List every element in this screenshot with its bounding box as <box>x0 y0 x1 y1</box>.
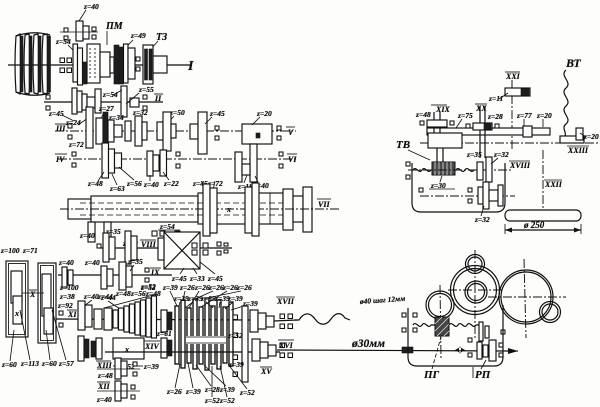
bottom label z=26 a <box>166 364 182 396</box>
svg-text:z=48: z=48 <box>415 110 431 119</box>
svg-text:IX: IX <box>150 268 160 277</box>
bearing squares shaft II <box>46 95 147 110</box>
label z=40 shaft IV <box>143 175 159 189</box>
label z=56 <box>119 167 142 188</box>
shaft XIX vertical <box>420 112 454 133</box>
reversing box shaft XIV <box>113 338 144 359</box>
svg-text:z=35: z=35 <box>466 150 482 159</box>
svg-text:z=26: z=26 <box>222 283 238 292</box>
label z=48 shaft XIII <box>97 371 113 380</box>
small gears below spindle left <box>88 222 111 248</box>
vertical shaft XXII centerline <box>542 150 544 211</box>
bottom label z=52 a <box>204 366 220 405</box>
label z=71 <box>22 246 38 255</box>
svg-text:z=52: z=52 <box>219 396 235 405</box>
label z=92 <box>57 301 73 310</box>
svg-text:z=52: z=52 <box>239 388 255 397</box>
bearing squares shaft I left <box>60 58 72 73</box>
block z=20 on shaft V <box>242 124 272 144</box>
svg-text:VI: VI <box>288 155 297 164</box>
bearing squares shaft VIII right <box>217 242 228 255</box>
label IX <box>150 268 161 277</box>
label z=40 shaft XI <box>83 292 99 306</box>
label z=44 z=48 z=36 z=40 row <box>97 289 161 301</box>
svg-text:z=26: z=26 <box>236 283 252 292</box>
svg-text:X: X <box>29 290 36 299</box>
label XX <box>475 104 487 113</box>
label z=75 <box>456 111 473 128</box>
label XVII <box>276 297 295 306</box>
label XXIII <box>567 146 589 155</box>
svg-text:ПМ: ПМ <box>105 21 124 32</box>
svg-text:XIV: XIV <box>144 342 159 351</box>
svg-text:z=28: z=28 <box>487 112 503 121</box>
svg-text:z=26: z=26 <box>208 283 224 292</box>
svg-text:z=77: z=77 <box>516 111 532 120</box>
label z=40 shaft VI <box>253 176 269 190</box>
label z=45 z=33 z=45 row <box>171 262 223 283</box>
svg-text:III: III <box>55 124 66 133</box>
label VI <box>287 154 297 164</box>
label z=49 <box>124 31 146 49</box>
shaft I centerline <box>8 64 192 66</box>
label XI <box>67 310 77 319</box>
shaft IX centerline <box>58 274 172 276</box>
svg-text:XIX: XIX <box>435 105 450 114</box>
svg-text:x: x <box>14 309 19 318</box>
svg-text:z=48: z=48 <box>145 289 161 298</box>
gears on shaft IX <box>62 262 149 290</box>
svg-text:z=45: z=45 <box>171 274 187 283</box>
svg-text:VIII: VIII <box>141 240 157 249</box>
apron box upper (saddle) <box>428 133 462 163</box>
gear cluster on shaft II <box>72 86 139 117</box>
apron left wheel circle <box>426 285 454 358</box>
apron small right circle <box>540 302 561 323</box>
bearing squares shaft V <box>215 126 281 140</box>
label z=44 shaft XI <box>100 293 120 309</box>
label VIII <box>140 240 157 249</box>
shaft II centerline <box>44 101 163 103</box>
bearing squares shaft III <box>68 124 72 139</box>
label ПГ <box>423 337 441 381</box>
svg-text:z=60: z=60 <box>1 360 17 369</box>
label z=40 shaft XII <box>96 395 112 404</box>
svg-text:XXII: XXII <box>544 180 563 189</box>
svg-text:z=48: z=48 <box>97 371 113 380</box>
label XIII <box>96 361 113 370</box>
label z=27 <box>98 104 114 121</box>
svg-text:z=52: z=52 <box>204 396 220 405</box>
svg-text:z=26: z=26 <box>194 283 210 292</box>
svg-text:z=32: z=32 <box>474 215 490 224</box>
svg-text:z=100: z=100 <box>59 283 79 292</box>
label z=20 shaft V <box>252 109 272 125</box>
label z=77 <box>516 111 532 127</box>
label z=60 bottom a <box>1 330 17 369</box>
label z=52 mid <box>227 331 243 340</box>
svg-text:z=40: z=40 <box>143 180 159 189</box>
svg-text:x: x <box>124 345 129 354</box>
label z=34 <box>108 113 124 129</box>
saddle outline box <box>412 163 505 212</box>
bed rack bar <box>427 126 550 137</box>
gears hanging from block to shaft VI <box>235 144 257 182</box>
svg-text:XV: XV <box>260 367 272 376</box>
label z=55 <box>126 85 154 104</box>
svg-text:z=100: z=100 <box>0 246 20 255</box>
svg-text:z=40: z=40 <box>84 258 100 267</box>
apron outline box <box>408 305 503 366</box>
gears on shaft XI left <box>59 301 102 330</box>
gear cluster on shaft I <box>73 44 140 85</box>
gears left edge of feed stack <box>161 310 172 358</box>
label z=24 <box>65 118 88 127</box>
reversing box with cross on shaft VIII <box>158 232 208 269</box>
svg-text:z=35: z=35 <box>127 257 143 266</box>
label VII <box>317 199 331 209</box>
shaft XI centerline <box>56 319 250 320</box>
sliding key gear cone on shaft XI <box>104 294 157 338</box>
gears on shaft VIII <box>103 231 137 264</box>
cross slide table ø250 <box>505 210 581 234</box>
label X <box>29 290 37 299</box>
svg-text:z=56: z=56 <box>126 179 142 188</box>
label РП <box>473 360 491 381</box>
svg-text:z=57: z=57 <box>58 359 74 368</box>
bevel gear z=11 on shaft XXI <box>505 88 530 96</box>
gear z=50 on shaft III <box>157 112 176 151</box>
label z=54 shaft I <box>55 37 76 53</box>
label z=54 shaft II <box>102 90 122 99</box>
svg-text:ø40 шаг 12мм: ø40 шаг 12мм <box>359 294 406 306</box>
svg-text:z=40: z=40 <box>96 395 112 404</box>
apron vertical centerline through wheel <box>474 250 476 340</box>
half nut on cross screw <box>432 162 455 175</box>
feed gearbox gear stack <box>175 298 233 370</box>
svg-text:z=75: z=75 <box>457 111 473 120</box>
svg-text:z=40: z=40 <box>83 292 99 301</box>
svg-text:z=39: z=39 <box>143 362 159 371</box>
svg-text:z=27: z=27 <box>98 104 114 113</box>
label z=30 <box>429 176 455 190</box>
bottom label z=52 c <box>228 364 255 397</box>
bottom label z=39 a <box>185 363 201 396</box>
gears on shaft XII below box <box>97 358 140 401</box>
leader fan into stack tops <box>170 291 247 310</box>
svg-text:РП: РП <box>475 369 491 381</box>
svg-text:IV: IV <box>55 155 65 164</box>
shaft in apron lower <box>419 182 515 209</box>
label III <box>55 124 66 133</box>
label z=72 shaft VI <box>207 179 223 190</box>
leadscrew spring in apron <box>413 324 479 327</box>
svg-text:z=40: z=40 <box>79 231 95 240</box>
label z=40 shaft IX b <box>84 258 100 267</box>
bottom label z=39 b <box>204 365 235 394</box>
svg-text:z=72: z=72 <box>68 140 84 149</box>
label z=38 <box>59 292 75 301</box>
svg-text:z=38: z=38 <box>59 292 75 301</box>
label z=52 left <box>140 282 156 291</box>
svg-text:XXIII: XXIII <box>567 146 589 155</box>
svg-text:ТВ: ТВ <box>396 139 410 151</box>
label IV <box>55 154 67 164</box>
label z=57 <box>52 310 74 368</box>
svg-text:VII: VII <box>318 200 330 209</box>
label XIX <box>431 105 450 114</box>
gear z=40 on shaft I top <box>60 21 98 41</box>
vertical shaft XXI centerline <box>511 80 513 150</box>
spindle VII body <box>68 187 312 232</box>
label z=40 shaft IX a <box>58 258 74 267</box>
label z=45 shaft V <box>205 109 225 124</box>
fan of labels z=39 z=26 above stack row1 <box>162 283 252 292</box>
label z=39 on XIV <box>143 362 159 371</box>
label XII <box>97 382 110 391</box>
label z=54 boxed below spindle <box>152 222 180 239</box>
svg-text:ø 250: ø 250 <box>523 220 545 230</box>
svg-text:z=61: z=61 <box>156 329 172 338</box>
svg-text:z=52: z=52 <box>227 331 243 340</box>
rack pinion z=20 right end <box>560 128 584 143</box>
svg-text:z=39: z=39 <box>185 387 201 396</box>
svg-text:z=63: z=63 <box>109 184 125 193</box>
svg-text:II: II <box>154 94 162 103</box>
shaft VIII centerline <box>100 247 232 249</box>
label z=50 <box>167 108 185 124</box>
svg-text:z=56: z=56 <box>130 289 146 298</box>
leadscrew XVII with spring squiggle <box>295 314 350 325</box>
svg-text:z=44: z=44 <box>97 292 113 301</box>
flexible shaft squiggle to ВТ <box>564 70 568 136</box>
label ТВ <box>396 139 430 160</box>
svg-text:z=39: z=39 <box>162 283 178 292</box>
label z=52 on XIV <box>113 362 143 371</box>
label XXI <box>505 72 521 81</box>
svg-text:V: V <box>288 128 294 137</box>
svg-text:XI: XI <box>67 310 77 319</box>
label z=40 <box>79 2 99 21</box>
change gear frame left <box>6 261 56 343</box>
hub band inside gear stack <box>186 336 226 344</box>
bearing squares shaft IV <box>72 152 283 168</box>
bearing squares cross screw <box>406 162 410 179</box>
svg-text:z=71: z=71 <box>22 246 38 255</box>
svg-text:z=48: z=48 <box>115 289 131 298</box>
svg-text:z=113: z=113 <box>20 359 39 368</box>
label XVI <box>278 340 294 350</box>
cone pulley on shaft I <box>15 33 51 96</box>
half nut on leadscrew hatched <box>435 317 449 336</box>
svg-text:z=40: z=40 <box>58 258 74 267</box>
label z=35 cross feed <box>466 150 482 159</box>
label z=35 below spindle <box>105 227 121 236</box>
apron handwheel small top circle <box>466 255 485 274</box>
label z=40 shaft VIII <box>122 239 138 248</box>
svg-text:z=45: z=45 <box>207 274 223 283</box>
bottom label z=52 b <box>219 366 235 405</box>
svg-text:z=92: z=92 <box>57 301 73 310</box>
label z=113 <box>20 310 39 368</box>
label z=32 <box>132 108 148 117</box>
shaft XIV centerline <box>105 351 280 353</box>
label II <box>154 94 163 103</box>
svg-text:z=60: z=60 <box>41 359 57 368</box>
apron gear large circle <box>448 266 503 315</box>
label z=100 shaft XI <box>59 283 79 292</box>
svg-text:z=40: z=40 <box>83 2 99 11</box>
svg-text:z=24: z=24 <box>65 118 81 127</box>
shaft III / V centerline <box>55 130 296 132</box>
shaft IV / VI centerline <box>58 158 298 160</box>
svg-text:XII: XII <box>97 382 110 391</box>
svg-text:XVIII: XVIII <box>509 161 531 170</box>
cross screw spring squiggle <box>408 169 512 172</box>
svg-text:z=20: z=20 <box>256 109 272 118</box>
svg-text:z=32: z=32 <box>493 150 509 159</box>
gears z=45 z=72 on spindle <box>203 184 217 236</box>
svg-text:z=48: z=48 <box>87 179 103 188</box>
label z=35 shaft IX <box>127 257 143 271</box>
svg-text:z=49: z=49 <box>130 31 146 40</box>
label z=52 under IX <box>140 283 156 292</box>
svg-text:I: I <box>187 59 194 74</box>
apron largest circle <box>488 259 566 338</box>
svg-text:z=33: z=33 <box>189 274 205 283</box>
gear cluster on shaft IV <box>102 143 167 178</box>
label z=45 shaft VI <box>192 179 208 188</box>
label ПМ <box>105 21 124 45</box>
svg-text:z=39: z=39 <box>227 294 243 303</box>
svg-text:z=54: z=54 <box>102 90 118 99</box>
gear cluster on shaft III <box>86 107 147 150</box>
svg-text:z=11: z=11 <box>488 94 503 103</box>
svg-text:z=39: z=39 <box>219 385 235 394</box>
spindle VII centerline <box>60 208 340 210</box>
svg-text:z=26: z=26 <box>179 283 195 292</box>
svg-text:z=20: z=20 <box>536 111 552 120</box>
label z=39 mid <box>228 360 244 369</box>
gears z=18 z=40 on spindle <box>245 183 259 236</box>
svg-text:z=45: z=45 <box>48 109 64 118</box>
clutch on shaft XVI <box>252 339 293 361</box>
label z=28 <box>487 112 503 121</box>
bearing squares apron <box>402 313 505 357</box>
svg-text:z=22: z=22 <box>163 179 179 188</box>
worm clutch on feed rod in apron <box>402 322 503 361</box>
label XXII <box>544 180 563 189</box>
label ТЗ <box>151 32 167 49</box>
svg-text:z=55: z=55 <box>138 85 154 94</box>
svg-text:z=26: z=26 <box>166 387 182 396</box>
gear z=45 on shaft V <box>190 112 207 154</box>
svg-text:XVII: XVII <box>276 297 295 306</box>
label z=48 rack pinion <box>415 110 431 119</box>
shaft X centerline <box>22 292 44 294</box>
label z=45 shaft III <box>48 109 74 121</box>
one-tooth clutch ТЗ on shaft I <box>143 45 167 84</box>
dark gears on shaft XIV left <box>78 336 102 361</box>
svg-text:XIII: XIII <box>96 361 113 370</box>
label z=72 shaft III <box>68 140 84 149</box>
label z=18 <box>237 175 253 191</box>
label XIV <box>144 341 160 351</box>
label z=20 rack <box>536 111 552 127</box>
label z=100 top <box>0 246 20 255</box>
tall bar XV <box>233 306 248 382</box>
label V <box>286 127 295 137</box>
svg-text:XXI: XXI <box>505 72 521 81</box>
bottom label z=28 <box>196 365 220 394</box>
label XVIII <box>509 161 531 170</box>
svg-text:XVI: XVI <box>278 341 294 350</box>
label z=32 upper <box>491 150 509 164</box>
svg-text:z=45: z=45 <box>209 109 225 118</box>
svg-text:z=54: z=54 <box>55 37 71 46</box>
svg-text:x: x <box>226 205 231 214</box>
label z=63 <box>109 174 125 193</box>
svg-text:ø30мм: ø30мм <box>351 338 385 350</box>
label z=32 lower <box>474 206 490 224</box>
label z=22 <box>163 172 179 188</box>
label XV <box>260 367 272 376</box>
label z=48 shaft IV <box>87 172 104 188</box>
feed rod shaft XVI <box>277 350 518 351</box>
label z=20 far right <box>580 132 599 141</box>
svg-text:ПГ: ПГ <box>423 369 440 381</box>
fan of labels z=39 row2 <box>173 294 258 308</box>
saddle centerline dash-dot <box>420 142 598 144</box>
label z=11 <box>488 93 508 103</box>
label z=40 below spindle <box>79 231 95 240</box>
shaft XX vertical <box>466 106 499 158</box>
gears on shaft XVIII <box>477 157 492 182</box>
svg-text:ВТ: ВТ <box>565 56 581 70</box>
clutch on shaft XVII <box>250 310 297 332</box>
label z=60 bottom b <box>41 330 57 368</box>
label z=61 <box>156 329 172 338</box>
